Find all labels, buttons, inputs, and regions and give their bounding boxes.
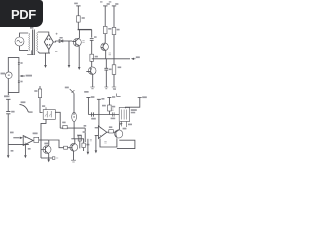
wire secondary top: [38, 32, 49, 35]
wire to Q5 base resistor: [49, 140, 64, 148]
resistor R9: [60, 127, 63, 129]
comp box: [78, 135, 81, 141]
transistor Q1: [73, 38, 81, 46]
tap arrow down 2: [68, 41, 70, 65]
label near Q1: [82, 41, 84, 43]
output resistor R10: [107, 131, 109, 133]
comp box below bar: [83, 139, 85, 143]
wire bridge output: [53, 41, 59, 42]
wire: [20, 33, 29, 37]
rail tick +V 3: [112, 5, 116, 7]
collector node bar: [78, 29, 92, 31]
resistor R1: [77, 16, 81, 22]
mains loop: [8, 58, 19, 93]
label above A2: [102, 105, 106, 107]
transformer T1 primary winding: [29, 33, 30, 51]
bottom bus: [8, 144, 29, 146]
wire to Q1 base: [63, 40, 73, 42]
wire: [108, 111, 110, 115]
input arrow into loop: [21, 75, 25, 77]
ground G4: [71, 160, 76, 162]
label above A1: [33, 133, 38, 135]
wire: [68, 147, 73, 149]
ground G1: [90, 87, 94, 89]
Q1 emitter arrow down: [78, 46, 80, 67]
wire: [108, 98, 110, 106]
capacitor C3 to ground: [104, 59, 108, 87]
wire rail2: [104, 6, 106, 27]
label T1: [30, 27, 33, 29]
label = left of rail: [111, 109, 113, 111]
capacitor C1: [6, 112, 10, 114]
comp marks on loop right lower: [18, 81, 20, 83]
diode D7 across relay: [121, 121, 123, 126]
wire: [113, 35, 115, 65]
wire: [7, 99, 9, 111]
label mid: [10, 132, 14, 134]
transistor Q6: [115, 130, 123, 138]
lamp chain top label: [65, 87, 69, 89]
loop bottom stub + label: [7, 92, 9, 95]
resistor R8: [64, 146, 68, 149]
rail tick +V 2: [103, 5, 107, 7]
transistor Q4: [43, 146, 51, 154]
wire from S1 bottom: [41, 119, 46, 158]
op-amp A2: [98, 126, 106, 139]
input stubs: [95, 128, 99, 136]
resistor R11: [108, 105, 112, 111]
wire: [77, 22, 79, 30]
primary ground stub: [27, 50, 33, 54]
arrow down B: [24, 145, 26, 156]
node - label: [55, 51, 57, 53]
relay RLA coil: [126, 98, 142, 109]
stray label ~: [113, 88, 116, 90]
wire lamp to bar: [73, 122, 75, 139]
RC wire W1: [88, 112, 119, 116]
wire rail3: [113, 6, 115, 28]
transistor Q2: [88, 67, 96, 75]
wire: [91, 52, 93, 68]
transformer T1 secondary winding: [37, 32, 38, 52]
collector bar: [71, 138, 84, 140]
wire: [40, 98, 43, 113]
lower-left rail tick: [6, 98, 10, 100]
wire secondary bottom: [38, 52, 50, 53]
lower rail tick E: [97, 98, 101, 100]
ground arrow F: [95, 136, 97, 151]
wire to +in: [98, 99, 100, 127]
capacitor C10 on W1: [112, 112, 114, 116]
transistor Q5: [70, 143, 78, 151]
caps on bar: [78, 137, 80, 140]
capacitor C2: [90, 30, 94, 52]
label: [90, 139, 92, 141]
resistor R5: [112, 27, 116, 34]
lower rail tick D: [86, 97, 90, 99]
wire: [7, 114, 9, 145]
lamp LP1: [72, 112, 77, 121]
wire mid horizontal: [67, 127, 85, 129]
transistor Q3: [101, 43, 109, 51]
long output bus: [92, 58, 130, 60]
label: [104, 141, 106, 143]
transformer T1 core: [33, 30, 35, 56]
lower rail tick F: [107, 97, 111, 99]
emitter hook: [117, 140, 135, 148]
meter M1: [6, 72, 13, 79]
wire: [79, 141, 81, 148]
OUT arrow: [131, 58, 134, 60]
end comp: [52, 157, 55, 160]
bridge rectifier BR1: [44, 35, 53, 50]
stub from relay bottom: [125, 121, 127, 127]
input arrow to A1: [13, 137, 19, 139]
wire from S1 right: [55, 112, 60, 128]
bottom bus 2: [41, 157, 52, 159]
node + label: [56, 33, 58, 35]
label left: [1, 73, 6, 75]
arrow down A: [7, 145, 9, 156]
stub wire: [117, 94, 121, 97]
diode D5: [59, 40, 63, 43]
wire: [20, 46, 29, 50]
feedback loop: [100, 138, 117, 147]
switch box S1: [43, 110, 55, 120]
comp marks on loop right upper: [18, 62, 20, 64]
right leg down: [84, 128, 86, 142]
wire + ground G3: [113, 74, 115, 87]
diode D6: [70, 89, 75, 93]
rail tick +V 1: [76, 5, 80, 7]
output box RV1: [34, 137, 39, 142]
label below Q2: [84, 91, 88, 93]
resistor R4: [103, 26, 107, 33]
curved sensor wire: [20, 105, 33, 113]
wire rail1: [77, 6, 79, 16]
wire: [73, 93, 75, 115]
label left of rail3: [109, 53, 111, 55]
ground arrow 1: [45, 53, 47, 65]
op-amp A1: [23, 136, 33, 146]
PDF badge: [0, 0, 43, 27]
label D5: [60, 37, 63, 39]
resistor R6: [112, 65, 116, 75]
arrow down C: [87, 139, 89, 152]
wire: [104, 34, 106, 44]
wire A1 out: [39, 139, 49, 141]
AC source V1: [15, 37, 24, 46]
wire bridge bottom to rail: [48, 50, 50, 54]
resistor R3: [90, 54, 94, 61]
wire: [87, 98, 89, 115]
upper resistor R7: [39, 86, 41, 89]
